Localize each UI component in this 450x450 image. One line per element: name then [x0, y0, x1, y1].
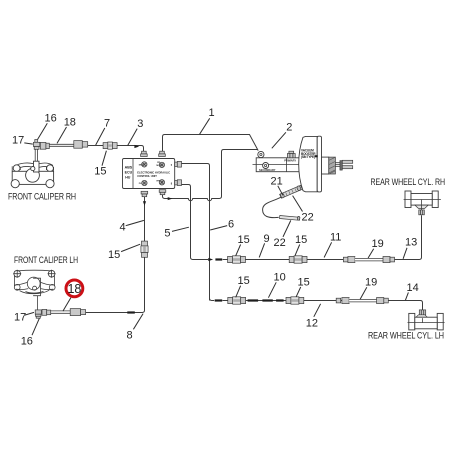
svg-text:15: 15 [298, 277, 310, 289]
svg-text:3: 3 [137, 118, 143, 130]
svg-text:REAR WHEEL CYL. LH: REAR WHEEL CYL. LH [368, 330, 444, 340]
svg-text:19: 19 [365, 277, 377, 289]
svg-text:(SIN TYPE): (SIN TYPE) [301, 155, 315, 159]
svg-text:ABS: ABS [125, 165, 133, 169]
svg-text:15: 15 [295, 234, 307, 246]
svg-text:15: 15 [238, 275, 250, 287]
svg-text:4: 4 [120, 222, 126, 234]
svg-text:2: 2 [286, 122, 292, 134]
svg-text:13: 13 [405, 237, 417, 249]
svg-text:REAR WHEEL CYL. RH: REAR WHEEL CYL. RH [371, 177, 446, 187]
svg-text:17: 17 [14, 312, 26, 324]
svg-text:17: 17 [12, 135, 24, 147]
svg-text:15: 15 [238, 234, 250, 246]
svg-text:22: 22 [302, 212, 314, 224]
svg-text:HU: HU [125, 175, 131, 179]
svg-text:1: 1 [209, 107, 215, 119]
svg-text:SECONDARY: SECONDARY [259, 168, 276, 172]
svg-text:15: 15 [108, 249, 120, 261]
svg-text:16: 16 [45, 112, 57, 124]
svg-text:18: 18 [67, 282, 81, 296]
svg-text:15: 15 [94, 165, 106, 177]
svg-text:11: 11 [330, 232, 341, 244]
svg-text:PRIMARY: PRIMARY [284, 159, 296, 163]
svg-text:CONTROL UNIT: CONTROL UNIT [137, 174, 157, 178]
svg-text:10: 10 [274, 272, 286, 284]
svg-text:7: 7 [104, 118, 110, 130]
svg-text:19: 19 [372, 238, 384, 250]
svg-text:9: 9 [264, 233, 270, 245]
svg-text:6: 6 [228, 218, 234, 230]
svg-text:MC2: MC2 [139, 165, 144, 167]
svg-text:14: 14 [407, 282, 419, 294]
svg-text:16: 16 [21, 335, 33, 347]
svg-text:MC1: MC1 [156, 165, 161, 167]
svg-text:21: 21 [271, 175, 283, 187]
svg-text:ECU: ECU [125, 170, 133, 174]
svg-text:12: 12 [306, 317, 318, 329]
svg-text:5: 5 [164, 228, 170, 240]
svg-text:RR: RR [157, 181, 161, 183]
svg-text:FR: FR [157, 162, 160, 164]
svg-text:FRONT CALIPER RH: FRONT CALIPER RH [8, 192, 76, 202]
svg-text:22: 22 [274, 237, 286, 249]
svg-text:8: 8 [127, 329, 133, 341]
svg-text:18: 18 [64, 116, 76, 128]
svg-text:FRONT CALIPER LH: FRONT CALIPER LH [14, 255, 78, 265]
